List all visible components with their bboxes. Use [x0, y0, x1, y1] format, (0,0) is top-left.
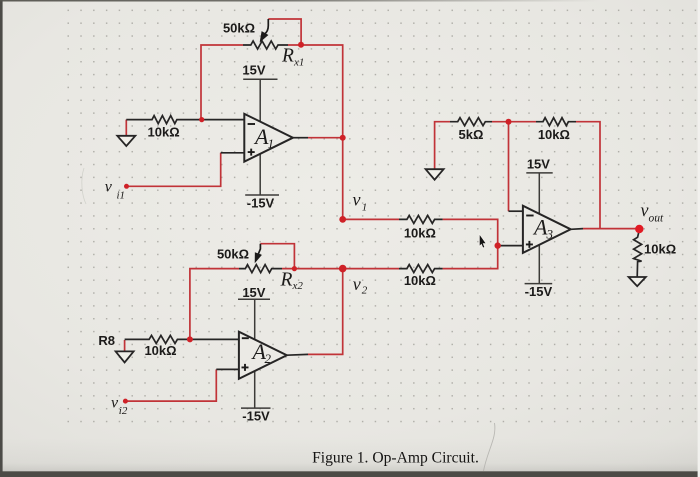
svg-text:Figure 1. Op-Amp Circuit.: Figure 1. Op-Amp Circuit. — [312, 450, 479, 467]
svg-text:i1: i1 — [117, 189, 126, 201]
svg-text:5kΩ: 5kΩ — [459, 127, 484, 142]
svg-text:10kΩ: 10kΩ — [644, 242, 676, 257]
svg-text:2: 2 — [265, 351, 272, 366]
svg-text:R: R — [280, 270, 293, 291]
svg-text:15V: 15V — [242, 62, 265, 77]
svg-text:v: v — [353, 190, 361, 210]
svg-text:10kΩ: 10kΩ — [404, 226, 436, 241]
svg-text:10kΩ: 10kΩ — [538, 127, 570, 142]
svg-text:15V: 15V — [242, 285, 265, 300]
svg-text:-15V: -15V — [247, 196, 275, 211]
svg-text:1: 1 — [362, 201, 368, 213]
svg-text:i2: i2 — [119, 405, 128, 417]
svg-text:v: v — [111, 395, 119, 412]
svg-text:50kΩ: 50kΩ — [217, 247, 249, 262]
svg-text:-15V: -15V — [525, 284, 553, 299]
svg-text:2: 2 — [362, 285, 368, 297]
svg-text:R: R — [281, 46, 294, 67]
svg-text:out: out — [649, 213, 665, 225]
svg-text:v: v — [353, 274, 361, 294]
svg-text:50kΩ: 50kΩ — [223, 21, 255, 36]
svg-text:10kΩ: 10kΩ — [144, 343, 176, 358]
svg-text:3: 3 — [546, 227, 554, 242]
svg-text:R8: R8 — [98, 333, 115, 348]
svg-text:v: v — [641, 200, 649, 220]
svg-text:10kΩ: 10kΩ — [404, 273, 436, 288]
svg-text:x1: x1 — [293, 57, 304, 69]
svg-text:x2: x2 — [292, 280, 304, 292]
svg-text:1: 1 — [268, 136, 275, 151]
svg-text:v: v — [105, 179, 113, 196]
svg-text:10kΩ: 10kΩ — [148, 125, 180, 140]
svg-text:15V: 15V — [527, 156, 550, 171]
svg-text:-15V: -15V — [242, 409, 270, 424]
